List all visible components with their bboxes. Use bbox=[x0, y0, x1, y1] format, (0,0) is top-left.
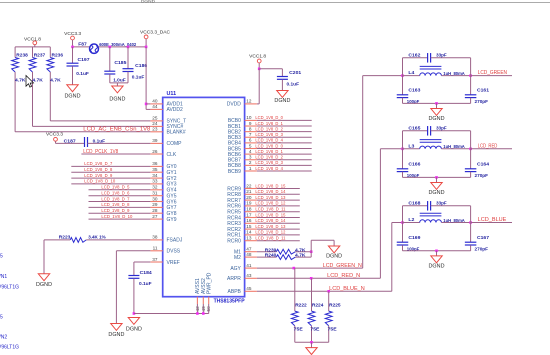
svg-text:LCD_1V8_D_10: LCD_1V8_D_10 bbox=[84, 179, 115, 184]
svg-text:1: 1 bbox=[249, 166, 252, 171]
resistor R224 75E bbox=[308, 278, 324, 342]
wire RCR8 net LCD_1V8_D_14 bbox=[255, 189, 299, 194]
node fragment (left edge lower) bbox=[0, 315, 19, 351]
svg-text:17: 17 bbox=[246, 212, 252, 217]
svg-text:100pF: 100pF bbox=[407, 99, 420, 105]
svg-text:28: 28 bbox=[152, 208, 158, 213]
wire BCB8 net LCD_1V8_D_3 bbox=[255, 160, 311, 165]
pin 2 BCB8 (U11 right) bbox=[228, 160, 257, 169]
svg-text:C166: C166 bbox=[408, 161, 420, 167]
capacitor C187 0.1uF (COMP pin 39) bbox=[64, 137, 151, 147]
capacitor C168 33pF (top of L2 block) bbox=[403, 200, 471, 210]
wire RCR5 net LCD_1V8_D_11 bbox=[255, 207, 299, 212]
svg-text:BLANK#: BLANK# bbox=[167, 130, 186, 136]
svg-text:4.7K: 4.7K bbox=[32, 77, 43, 83]
wire GY8 net LCD_1V8_D_9 bbox=[89, 208, 151, 213]
power symbol VCC1.8 (left) bbox=[24, 36, 41, 47]
svg-text:75E: 75E bbox=[328, 326, 338, 332]
svg-text:R224: R224 bbox=[312, 303, 324, 309]
wire BCB1 net LCD_1V8_D_1 bbox=[255, 121, 311, 126]
pin 31 GY5 (U11 left) bbox=[150, 191, 176, 200]
wire RCR3 net LCD_1V8_D_14 bbox=[255, 218, 299, 223]
svg-text:LCD_1V8_D_12: LCD_1V8_D_12 bbox=[255, 201, 285, 206]
capacitor C166 100pF (left of L3 block) bbox=[397, 131, 421, 179]
capacitor C184 0.1uF (VREF pin 37) bbox=[128, 262, 152, 314]
svg-text:VCC3.3: VCC3.3 bbox=[46, 132, 63, 138]
svg-text:LCD_1V8_D_7: LCD_1V8_D_7 bbox=[84, 161, 112, 166]
svg-text:1uH_80mA: 1uH_80mA bbox=[443, 71, 465, 77]
wire F87 to VCC3.3_DAC node bbox=[99, 46, 147, 48]
pin 10 BCB0 (U11 right) bbox=[228, 115, 257, 124]
svg-text:LCD_AC_ENB_CSn_1V8: LCD_AC_ENB_CSn_1V8 bbox=[83, 127, 150, 133]
svg-text:AGY: AGY bbox=[230, 266, 241, 272]
svg-text:38: 38 bbox=[152, 235, 158, 240]
pin 35 GY1 (U11 left) bbox=[150, 167, 176, 176]
svg-text:LCD_1V8_D_2: LCD_1V8_D_2 bbox=[255, 155, 283, 160]
svg-text:7: 7 bbox=[249, 132, 252, 137]
wire RCR2 net LCD_1V8_D_13 bbox=[255, 224, 299, 229]
pin 21 RCR8 (U11 right) bbox=[227, 189, 257, 198]
svg-text:WN1: WN1 bbox=[0, 274, 7, 280]
svg-text:24: 24 bbox=[152, 121, 158, 126]
pin 39 COMP (U11 left) bbox=[150, 138, 182, 147]
pin 36 GY0 (U11 left) bbox=[150, 161, 176, 170]
svg-text:LCD_GREEN_N: LCD_GREEN_N bbox=[323, 263, 362, 269]
wire GY6 net LCD_1V8_D_7 bbox=[89, 196, 151, 201]
ground DGND (L2 block) bbox=[429, 256, 445, 269]
wire GY0 net LCD_1V8_D_7 bbox=[71, 161, 150, 166]
svg-text:BCB9: BCB9 bbox=[228, 169, 241, 175]
svg-text:0.1uF: 0.1uF bbox=[132, 74, 145, 80]
svg-text:2: 2 bbox=[249, 160, 252, 165]
pin 5 BCB5 (U11 right) bbox=[228, 143, 257, 152]
svg-text:VCC1.8: VCC1.8 bbox=[24, 36, 41, 42]
svg-text:DGND: DGND bbox=[36, 282, 52, 288]
svg-text:4.7K: 4.7K bbox=[50, 77, 61, 83]
svg-text:41: 41 bbox=[246, 263, 252, 268]
svg-text:R240: R240 bbox=[265, 253, 277, 259]
svg-text:DGND: DGND bbox=[429, 263, 445, 269]
svg-text:14: 14 bbox=[246, 230, 252, 235]
ground DGND (L4 block) bbox=[429, 109, 445, 122]
ground DGND (L3 block) bbox=[429, 183, 445, 196]
svg-text:100pF: 100pF bbox=[407, 247, 420, 253]
node fragment (left edge upper) bbox=[0, 254, 19, 291]
svg-text:COMP: COMP bbox=[167, 141, 183, 147]
svg-text:LCD_1V8_D_3: LCD_1V8_D_3 bbox=[255, 132, 283, 137]
svg-text:V96LT1G: V96LT1G bbox=[0, 344, 19, 350]
ground DGND (VREF) bbox=[126, 318, 142, 333]
svg-text:3.4K 1%: 3.4K 1% bbox=[88, 234, 106, 240]
svg-text:LCD_BLUE: LCD_BLUE bbox=[478, 217, 507, 223]
svg-text:19: 19 bbox=[246, 201, 252, 206]
svg-text:C169: C169 bbox=[408, 235, 420, 241]
pin 15 RCR2 (U11 right) bbox=[227, 224, 257, 233]
svg-text:VCC3.3_DAC: VCC3.3_DAC bbox=[140, 30, 170, 36]
pin 32 GY4 (U11 left) bbox=[150, 185, 176, 194]
pin 37 VREF (U11 left) bbox=[150, 257, 179, 266]
svg-text:13: 13 bbox=[246, 236, 252, 241]
svg-text:33pF: 33pF bbox=[436, 125, 447, 131]
inductor L2 1uH_80mA bbox=[401, 213, 472, 224]
svg-text:C164: C164 bbox=[477, 161, 489, 167]
svg-text:LCD_1V8_D_9: LCD_1V8_D_9 bbox=[84, 173, 112, 178]
svg-text:270pF: 270pF bbox=[475, 99, 489, 105]
pin 11 DVSS (U11 left) bbox=[150, 246, 180, 255]
wire BCB5 net LCD_1V8_D_0 bbox=[255, 143, 311, 148]
svg-text:R222: R222 bbox=[295, 303, 307, 309]
svg-text:100pF: 100pF bbox=[407, 173, 420, 179]
svg-text:DVSS: DVSS bbox=[167, 249, 181, 255]
resistor R223 3.4K 1% (FSADJ pin 38) bbox=[44, 234, 150, 242]
capacitor C186 0.1uF bbox=[123, 46, 148, 83]
pin 38 FSADJ (U11 left) bbox=[150, 235, 182, 244]
svg-text:45: 45 bbox=[246, 286, 252, 291]
capacitor C161 270pF (right of L4 block) bbox=[465, 58, 489, 105]
svg-text:43: 43 bbox=[246, 273, 252, 278]
svg-text:C165: C165 bbox=[408, 125, 420, 131]
svg-text:DGND: DGND bbox=[141, 0, 155, 4]
pin 28 GY8 (U11 left) bbox=[150, 208, 176, 217]
svg-text:1uH_80mA: 1uH_80mA bbox=[443, 218, 465, 224]
capacitor C162 33pF (top of L4 block) bbox=[403, 52, 471, 62]
pin 18 RCR5 (U11 right) bbox=[227, 207, 257, 216]
svg-text:L2: L2 bbox=[408, 217, 414, 223]
svg-text:FSADJ: FSADJ bbox=[167, 238, 183, 244]
wire R237 to SYNC# pin 24 bbox=[33, 125, 151, 127]
svg-text:LCD_1V8_D_13: LCD_1V8_D_13 bbox=[255, 195, 285, 200]
pin 44 AVDD2 (U11 left) bbox=[150, 104, 183, 113]
pin 17 RCR4 (U11 right) bbox=[227, 212, 257, 221]
svg-text:37: 37 bbox=[152, 257, 158, 262]
svg-text:LCD_RED: LCD_RED bbox=[478, 143, 498, 149]
svg-text:23: 23 bbox=[152, 127, 158, 132]
capacitor C197 0.1uF bbox=[67, 47, 90, 85]
wire RCR6 net LCD_1V8_D_12 bbox=[255, 201, 299, 206]
svg-text:ARPR: ARPR bbox=[227, 276, 241, 282]
wire M1/M2 to ground bbox=[310, 240, 334, 257]
pin 16 RCR3 (U11 right) bbox=[227, 218, 257, 227]
svg-text:LCD_1V8_D_11: LCD_1V8_D_11 bbox=[255, 236, 285, 241]
svg-text:C163: C163 bbox=[408, 87, 420, 93]
svg-text:DVDD: DVDD bbox=[227, 102, 242, 108]
wire RCR0 net LCD_1V8_D_11 bbox=[255, 236, 299, 241]
wire GY4 net LCD_1V8_D_5 bbox=[89, 185, 151, 190]
pin 30 GY6 (U11 left) bbox=[150, 196, 176, 205]
border frame top line bbox=[0, 0, 550, 4]
wire AVSS1/AVSS2/PWR_PD ground bus bbox=[134, 304, 209, 315]
power symbol VCC3.3_DAC bbox=[140, 30, 170, 47]
svg-text:270pF: 270pF bbox=[475, 173, 489, 179]
ferrite bead F87 600E_300mA_0402 bbox=[78, 41, 136, 53]
resistor R225 75E bbox=[325, 291, 341, 342]
svg-text:DGND: DGND bbox=[65, 93, 81, 99]
svg-text:4: 4 bbox=[249, 149, 252, 154]
node VREF/AVSS ground junction bbox=[133, 312, 136, 315]
svg-text:LCD_1V8_D_0: LCD_1V8_D_0 bbox=[255, 115, 283, 120]
pin 34 GY2 (U11 left) bbox=[150, 173, 176, 182]
ground DGND (FSADJ) bbox=[36, 274, 52, 288]
wire output net LCD_BLUE bbox=[471, 217, 512, 223]
svg-text:C184: C184 bbox=[140, 270, 152, 276]
svg-text:U11: U11 bbox=[167, 91, 177, 97]
svg-text:27: 27 bbox=[152, 214, 158, 219]
ground DGND (DVSS) bbox=[108, 324, 124, 339]
op-amp U11 body (THS8135PFP video DAC) bbox=[163, 91, 245, 304]
svg-text:LCD_1V8_D_5: LCD_1V8_D_5 bbox=[101, 185, 129, 190]
svg-text:LCD_1V8_D_1: LCD_1V8_D_1 bbox=[255, 149, 283, 154]
svg-text:VCC1.8: VCC1.8 bbox=[249, 53, 266, 59]
svg-text:35: 35 bbox=[152, 167, 158, 172]
power symbol VCC3.3 (COMP) bbox=[46, 132, 85, 144]
svg-text:33pF: 33pF bbox=[436, 200, 447, 206]
pin 50 PWR_PD (U11 bottom) bbox=[206, 272, 212, 311]
wire L4 block bottom bbox=[403, 102, 471, 108]
svg-text:DGND: DGND bbox=[274, 98, 290, 104]
svg-text:DGND: DGND bbox=[108, 332, 124, 338]
pin 6 BCB4 (U11 right) bbox=[228, 138, 257, 147]
svg-text:75E: 75E bbox=[310, 326, 320, 332]
svg-text:33: 33 bbox=[152, 179, 158, 184]
svg-text:6: 6 bbox=[249, 138, 252, 143]
svg-text:R236: R236 bbox=[52, 53, 64, 59]
capacitor C165 33pF (top of L3 block) bbox=[403, 125, 471, 135]
resistor R237 bbox=[29, 47, 45, 127]
pin 45 ABPB (U11 right) bbox=[228, 286, 257, 295]
capacitor C164 270pF (right of L3 block) bbox=[465, 131, 489, 179]
svg-text:C162: C162 bbox=[408, 52, 420, 58]
wire LCD_BLUE filter input bbox=[392, 222, 403, 224]
wire BCB2 net LCD_1V8_D_2 bbox=[255, 126, 311, 131]
wire output net LCD_RED bbox=[471, 143, 512, 149]
wire LCD_GREEN filter input bbox=[363, 75, 403, 77]
wire BCB3 net LCD_1V8_D_3 bbox=[255, 132, 311, 137]
wire GY7 net LCD_1V8_D_8 bbox=[89, 202, 151, 207]
wire ARPR pin 43, net LCD_RED_N bbox=[257, 149, 381, 280]
svg-text:22: 22 bbox=[246, 183, 252, 188]
svg-text:R239: R239 bbox=[265, 247, 277, 253]
svg-text:0.1uF: 0.1uF bbox=[139, 281, 152, 287]
pin 25 SYNC_T (U11 left) bbox=[150, 116, 186, 125]
svg-text:F87: F87 bbox=[78, 41, 87, 47]
power symbol VCC3.3 (top) bbox=[64, 31, 81, 47]
wire VCC1.8 to DVDD pin 12 bbox=[257, 68, 261, 104]
svg-text:LCD_1V8_D_1: LCD_1V8_D_1 bbox=[255, 121, 283, 126]
svg-text:LCD_1V8_D_7: LCD_1V8_D_7 bbox=[101, 196, 129, 201]
svg-text:5: 5 bbox=[0, 315, 3, 321]
pin 20 RCR7 (U11 right) bbox=[227, 195, 257, 204]
svg-text:12: 12 bbox=[246, 99, 252, 104]
wire VCC3.3 to ferrite bead F87 bbox=[71, 46, 89, 49]
svg-text:34: 34 bbox=[152, 173, 158, 178]
wire L2 block bottom bbox=[403, 250, 471, 256]
svg-text:LCD_1V8_D_9: LCD_1V8_D_9 bbox=[101, 208, 129, 213]
wire R238 to BLANK# pin 23, net LCD_AC_ENB_CSn_1V8 bbox=[15, 127, 150, 133]
wire RCR1 net LCD_1V8_D_12 bbox=[255, 230, 299, 235]
wire RCR9 net LCD_1V8_D_15 bbox=[255, 183, 299, 188]
svg-text:LCD_1V8_D_6: LCD_1V8_D_6 bbox=[101, 191, 129, 196]
wire BCB7 net LCD_1V8_D_2 bbox=[255, 155, 311, 160]
svg-text:LCD_1V8_D_11: LCD_1V8_D_11 bbox=[255, 207, 285, 212]
wire R236 to SYNC_T pin 25 bbox=[50, 120, 150, 122]
svg-text:11: 11 bbox=[153, 246, 158, 251]
svg-text:33pF: 33pF bbox=[436, 52, 447, 58]
svg-text:DGND: DGND bbox=[429, 116, 445, 122]
svg-text:LCD_1V8_D_2: LCD_1V8_D_2 bbox=[255, 126, 283, 131]
svg-text:32: 32 bbox=[152, 185, 158, 190]
pin 48 M2 (U11 right) bbox=[234, 252, 257, 261]
svg-text:AVDD2: AVDD2 bbox=[167, 107, 184, 113]
svg-text:LCD_1V8_D_10: LCD_1V8_D_10 bbox=[101, 214, 132, 219]
svg-text:DGND: DGND bbox=[326, 253, 342, 259]
svg-text:0.1uF: 0.1uF bbox=[287, 82, 300, 88]
capacitor C185 1.0uF bbox=[104, 46, 126, 84]
pin 43 ARPR (U11 right) bbox=[227, 273, 257, 282]
pin 23 BLANK# (U11 left) bbox=[150, 127, 185, 136]
svg-text:LCD_1V8_D_14: LCD_1V8_D_14 bbox=[255, 218, 285, 223]
svg-text:4.7K: 4.7K bbox=[15, 77, 26, 83]
pin 26 CLK (U11 left) bbox=[150, 149, 176, 158]
wire LCD_RED filter input bbox=[380, 148, 402, 150]
svg-text:10: 10 bbox=[246, 115, 252, 120]
svg-text:LCD_1V8_D_3: LCD_1V8_D_3 bbox=[255, 160, 283, 165]
ground DGND (C197) bbox=[65, 85, 81, 100]
wire C185/C186 ground bar bbox=[110, 82, 128, 84]
pin 4 BCB6 (U11 right) bbox=[228, 149, 257, 158]
wire RCR7 net LCD_1V8_D_13 bbox=[255, 195, 299, 200]
pin 1 BCB9 (U11 right) bbox=[228, 166, 257, 175]
svg-text:0.1uF: 0.1uF bbox=[76, 71, 89, 77]
svg-text:LCD_GREEN: LCD_GREEN bbox=[478, 70, 508, 76]
svg-text:CLK: CLK bbox=[167, 152, 177, 158]
svg-text:4.7K: 4.7K bbox=[295, 247, 306, 253]
wire RCR4 net LCD_1V8_D_15 bbox=[255, 212, 299, 217]
svg-text:40: 40 bbox=[152, 99, 158, 104]
ground DGND (C201) bbox=[274, 91, 290, 105]
capacitor C169 100pF (left of L2 block) bbox=[397, 206, 421, 253]
svg-text:26: 26 bbox=[152, 149, 158, 154]
resistor R238 bbox=[12, 47, 28, 132]
svg-text:15: 15 bbox=[246, 224, 252, 229]
svg-text:LCD_BLUE_N: LCD_BLUE_N bbox=[329, 286, 365, 292]
svg-text:LCD_RED_N: LCD_RED_N bbox=[327, 273, 360, 279]
svg-text:31: 31 bbox=[152, 191, 158, 196]
pin 29 GY7 (U11 left) bbox=[150, 202, 176, 211]
ground DGND (C185 C186) bbox=[109, 83, 125, 103]
svg-text:C168: C168 bbox=[408, 200, 420, 206]
wire output net LCD_GREEN bbox=[471, 70, 512, 76]
pin 40 AVDD1 (U11 left) bbox=[150, 99, 183, 108]
svg-text:LCD_1V8_D_15: LCD_1V8_D_15 bbox=[255, 183, 285, 188]
svg-text:LCD_1V8_D_15: LCD_1V8_D_15 bbox=[255, 212, 285, 217]
pin 13 RCR0 (U11 right) bbox=[227, 236, 257, 245]
svg-text:LCD_PCLK_1V8: LCD_PCLK_1V8 bbox=[83, 149, 118, 155]
pin 7 BCB3 (U11 right) bbox=[228, 132, 257, 141]
svg-text:9: 9 bbox=[249, 121, 252, 126]
svg-text:5: 5 bbox=[249, 143, 252, 148]
pin 33 GY3 (U11 left) bbox=[150, 179, 176, 188]
wire BCB4 net LCD_1V8_D_4 bbox=[255, 138, 311, 143]
svg-text:L4: L4 bbox=[408, 70, 414, 76]
svg-text:LCD_1V8_D_0: LCD_1V8_D_0 bbox=[255, 143, 283, 148]
resistor R222 75E bbox=[291, 268, 307, 342]
svg-text:20: 20 bbox=[246, 195, 252, 200]
svg-text:47: 47 bbox=[246, 247, 252, 252]
svg-text:LCD_1V8_D_4: LCD_1V8_D_4 bbox=[255, 166, 283, 171]
svg-text:29: 29 bbox=[152, 202, 158, 207]
power symbol VCC1.8 (right) bbox=[249, 53, 266, 69]
svg-text:C167: C167 bbox=[477, 235, 489, 241]
wire termination ground bus bbox=[295, 341, 329, 348]
svg-text:DGND: DGND bbox=[109, 97, 125, 103]
svg-text:48: 48 bbox=[246, 252, 252, 257]
svg-text:DGND: DGND bbox=[429, 190, 445, 196]
svg-text:25: 25 bbox=[152, 116, 158, 121]
svg-text:21: 21 bbox=[246, 189, 252, 194]
svg-text:3: 3 bbox=[249, 155, 252, 160]
svg-text:5: 5 bbox=[0, 254, 3, 260]
svg-text:44: 44 bbox=[152, 104, 158, 109]
svg-text:RCR0: RCR0 bbox=[227, 239, 241, 245]
svg-text:75E: 75E bbox=[294, 326, 304, 332]
svg-text:V96LT1G: V96LT1G bbox=[0, 284, 19, 290]
svg-text:R237: R237 bbox=[34, 53, 46, 59]
svg-text:LCD_1V8_D_4: LCD_1V8_D_4 bbox=[255, 138, 283, 143]
svg-text:30: 30 bbox=[152, 196, 158, 201]
wire DVSS pin 11 to ground bbox=[116, 251, 150, 324]
resistor R236 bbox=[47, 47, 63, 121]
svg-text:C187: C187 bbox=[64, 138, 76, 144]
wire FSADJ to ground bbox=[43, 240, 45, 274]
wire CLK pin 26, net LCD_PCLK_1V8 bbox=[81, 149, 150, 155]
wire VCC1.8 rail bbox=[15, 46, 50, 48]
wire BCB0 net LCD_1V8_D_0 bbox=[255, 115, 311, 120]
pin 19 RCR6 (U11 right) bbox=[227, 201, 257, 210]
svg-text:THS8135PFP: THS8135PFP bbox=[214, 298, 245, 304]
pin 9 BCB1 (U11 right) bbox=[228, 121, 257, 130]
wire GY3 net LCD_1V8_D_10 bbox=[71, 179, 150, 184]
wire L3 block bottom bbox=[403, 176, 471, 182]
svg-text:C201: C201 bbox=[289, 70, 301, 76]
svg-text:36: 36 bbox=[152, 161, 158, 166]
svg-text:18: 18 bbox=[246, 207, 252, 212]
svg-text:R225: R225 bbox=[329, 303, 341, 309]
wire GY2 net LCD_1V8_D_9 bbox=[71, 173, 150, 178]
wire GY5 net LCD_1V8_D_6 bbox=[89, 191, 151, 196]
svg-text:GY9: GY9 bbox=[167, 217, 177, 223]
svg-text:1uH_80mA: 1uH_80mA bbox=[443, 144, 465, 150]
ground DGND (M1/M2) bbox=[326, 246, 342, 259]
svg-text:LCD_1V8_D_8: LCD_1V8_D_8 bbox=[101, 202, 129, 207]
wire VCC3.3_DAC to AVDD1/AVDD2 bbox=[145, 46, 151, 110]
svg-text:R223: R223 bbox=[59, 234, 71, 240]
pin 27 GY9 (U11 left) bbox=[150, 214, 176, 223]
svg-text:C161: C161 bbox=[477, 87, 489, 93]
pin 14 RCR1 (U11 right) bbox=[227, 230, 257, 239]
svg-text:LCD_1V8_D_12: LCD_1V8_D_12 bbox=[255, 230, 285, 235]
pin 8 BCB2 (U11 right) bbox=[228, 126, 257, 135]
svg-text:LCD_1V8_D_14: LCD_1V8_D_14 bbox=[255, 189, 285, 194]
wire BCB9 net LCD_1V8_D_4 bbox=[255, 166, 311, 171]
pin 24 SYNC# (U11 left) bbox=[150, 121, 183, 130]
svg-text:39: 39 bbox=[152, 138, 158, 143]
svg-text:PWR_PD: PWR_PD bbox=[207, 272, 213, 294]
wire AGY pin 41, net LCD_GREEN_N bbox=[257, 76, 363, 270]
svg-text:C185: C185 bbox=[114, 60, 126, 66]
pin 47 M1 (U11 right) bbox=[234, 247, 257, 256]
resistor R240 4.7K (M2 pin 48) bbox=[257, 253, 311, 260]
svg-text:4.7K: 4.7K bbox=[295, 253, 306, 259]
